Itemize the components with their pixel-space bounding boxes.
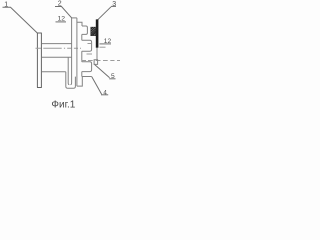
bellows loop2 xyxy=(82,40,92,51)
svg-text:3: 3 xyxy=(112,1,116,8)
right centerline xyxy=(82,60,121,62)
label 3 underline xyxy=(111,5,116,7)
axis centerline xyxy=(36,47,82,49)
label 12 top underline xyxy=(56,21,67,23)
dash left of bar lower xyxy=(87,53,93,55)
stem foot xyxy=(77,77,82,86)
rod below bar xyxy=(96,48,98,60)
bellows wall a xyxy=(81,34,83,40)
label 1 leader xyxy=(3,7,38,33)
body top box xyxy=(72,17,77,19)
svg-text:Фиг.1: Фиг.1 xyxy=(51,99,75,110)
membrane plate 1 xyxy=(37,33,42,88)
label 5 underline xyxy=(109,78,115,80)
foot box of bar xyxy=(94,60,98,65)
svg-text:4: 4 xyxy=(103,89,107,96)
step shoulder xyxy=(77,22,82,26)
label 2 leader xyxy=(55,7,72,18)
background paper xyxy=(0,0,120,112)
body right wall stem xyxy=(76,18,78,86)
bellows bottom flange xyxy=(82,76,92,78)
svg-text:1: 1 xyxy=(4,1,8,8)
dash left of bar upper xyxy=(88,43,92,45)
bellows wall b xyxy=(81,51,83,62)
label 4 leader xyxy=(92,77,102,95)
svg-text:2: 2 xyxy=(58,1,62,8)
label 3 leader xyxy=(98,7,111,20)
svg-text:12: 12 xyxy=(104,38,112,45)
bellows wall c xyxy=(81,72,83,77)
cup element xyxy=(66,72,76,89)
nozzle tip inner wall xyxy=(68,57,69,84)
tube top line xyxy=(42,43,72,45)
tube bottom line xyxy=(42,56,72,58)
label 12 right second dash xyxy=(100,46,106,48)
body left wall / nozzle outer wall xyxy=(71,18,72,85)
label 12 right underline xyxy=(100,43,112,45)
svg-text:12: 12 xyxy=(58,15,66,22)
label texts xyxy=(4,1,116,111)
bellows loop1 xyxy=(82,26,88,34)
svg-text:5: 5 xyxy=(111,73,115,80)
hatched element xyxy=(91,27,96,35)
label 4 underline xyxy=(101,94,108,96)
bellows loop3 xyxy=(82,62,92,72)
lower line to cup xyxy=(42,71,66,73)
label 5 leader xyxy=(94,64,109,78)
electrode bar 3 xyxy=(96,19,99,47)
